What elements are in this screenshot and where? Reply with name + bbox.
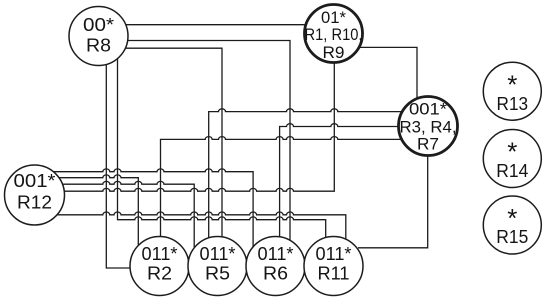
svg-text:R15: R15 <box>496 227 528 247</box>
node R3 R4 R7 (001*) <box>399 97 458 156</box>
wire U2-U3 (01* to 001* R3R4R7) <box>359 47 417 98</box>
wire R12-R5 <box>62 181 194 248</box>
node R5 (011*) <box>188 237 247 296</box>
svg-text:00*: 00* <box>83 15 114 35</box>
wire R8-R11 <box>118 59 326 238</box>
node R8 (00*) <box>69 7 128 66</box>
wire R8-R5 <box>125 48 222 237</box>
wire R12-R11 <box>57 212 346 239</box>
svg-text:011*: 011* <box>316 244 352 264</box>
node R12 (001*) <box>5 165 65 225</box>
svg-text:R9: R9 <box>323 43 345 62</box>
wire U3-R6 (001* to R6) <box>280 124 399 237</box>
wire R12-R6 <box>53 169 253 247</box>
wire R12-R2 <box>59 175 138 246</box>
svg-text:011*: 011* <box>142 244 178 264</box>
wire R8-R2 <box>106 64 130 268</box>
svg-text:001*: 001* <box>14 171 56 191</box>
svg-text:R6: R6 <box>263 264 288 284</box>
node R2 (011*) <box>130 237 189 296</box>
svg-text:R1, R10,: R1, R10, <box>305 25 363 44</box>
svg-text:011*: 011* <box>200 244 236 264</box>
node R11 (011*) <box>304 237 363 296</box>
wire U3-R11 (001* to R11) <box>358 156 428 248</box>
svg-text:001*: 001* <box>409 99 447 118</box>
svg-text:R13: R13 <box>497 94 529 114</box>
node R1 R10 R9 (01*) <box>305 5 363 63</box>
wire R12-U2 (001* to 01*) <box>64 63 334 192</box>
wire R8-U2 (00* to 01*) <box>126 24 306 26</box>
svg-text:R7: R7 <box>417 134 439 153</box>
wire R8-R6 <box>128 41 290 241</box>
node R15 (*) <box>483 196 541 254</box>
svg-text:R8: R8 <box>86 35 111 55</box>
node R14 (*) <box>483 130 541 188</box>
svg-text:R2: R2 <box>147 264 172 284</box>
svg-text:R11: R11 <box>318 264 350 284</box>
svg-text:011*: 011* <box>258 244 294 264</box>
node R6 (011*) <box>246 237 305 296</box>
svg-text:R14: R14 <box>496 161 528 181</box>
wire U3-R5 (001* to R5) <box>209 109 403 238</box>
wire U3-R2 (001* to R2) <box>161 137 402 237</box>
node R13 (*) <box>483 62 541 120</box>
svg-text:R12: R12 <box>17 193 52 213</box>
svg-text:R5: R5 <box>205 264 230 284</box>
